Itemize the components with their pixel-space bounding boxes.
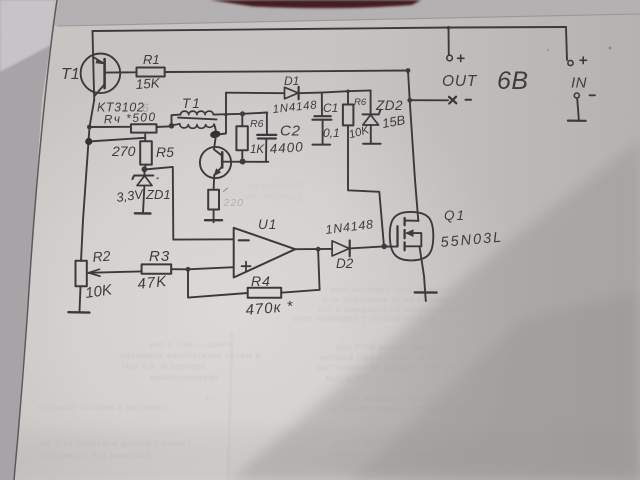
resistor R7 [131,124,157,132]
node feedback junction [186,267,191,272]
node OUT- junction [407,98,412,103]
wire D1 cathode to C1 node [299,92,322,95]
wire feedback right leg [281,249,319,292]
wire OUT- [410,99,448,101]
node R7 junction [87,125,92,130]
transistor T1 [81,54,137,96]
bar IN- end [568,119,586,121]
node gate junction [381,244,387,250]
resistor 220 emitter [208,190,219,210]
terminal OUT- x mark [449,97,456,104]
wire D2 to gate [350,246,398,248]
wire D1 anode horizontal [226,92,285,95]
wire IN+ drop [566,27,567,60]
wire top rail [93,27,567,31]
ground Q1 [415,291,437,294]
ground R2 [68,311,89,314]
wire R7 right lead [157,125,172,128]
wire OUT+ drop [448,28,450,55]
transistor Q2 [200,136,231,178]
wire Q1 source to ground [420,246,426,301]
resistor R4 [248,288,282,298]
node R6 top junction [240,111,245,116]
capacitor C1 [313,93,332,145]
wire feedback left leg [188,269,248,297]
zener ZD2 [363,90,381,143]
label IN minus sign [590,94,596,96]
wire ZD1 node to op-amp minus [144,167,233,240]
resistor R6 1K [236,114,247,162]
label OUT plus sign [458,55,465,62]
terminal OUT+ circle [447,55,453,61]
node ZD1 junction [142,166,148,172]
wire 220 bottom lead [213,210,215,223]
wire D1 anode vertical [218,93,227,135]
wire R7 left lead [89,126,131,128]
node collector blob [209,130,221,139]
diode D2 [332,241,350,257]
wire R3 to op-amp plus [171,267,234,269]
node top-rail to OUT+ junction [447,26,451,30]
wire left rail [81,100,94,261]
node output junction [316,247,321,252]
label IN plus sign [580,57,587,64]
pencil tick near 220 [224,188,228,192]
wire top node C1 to ZD2 [322,90,371,92]
resistor R1 [137,68,165,77]
zener ZD1 [132,169,153,213]
resistor R6 10K near ZD2 [343,91,384,246]
capacitor C2 [257,113,276,162]
node corner blob R1 wire [406,68,411,73]
wire drain vertical [408,71,418,221]
wire IN- stub [577,98,579,119]
node R6 bottom junction [240,159,246,165]
ground ZD1 [135,212,151,215]
resistor R5 [89,135,152,170]
ground emitter resistor [205,219,222,221]
terminal IN+ circle [568,60,573,65]
diode D1 [285,87,299,99]
terminal IN- circle [574,93,579,98]
wire Q2 base [222,161,268,163]
mosfet Q1 [390,212,434,261]
label OUT minus sign [466,99,472,101]
node crossing dot [224,113,227,116]
wire R1 to right corner [165,71,408,73]
pencil fleck [156,177,158,179]
wire Q2 emitter lead [213,175,216,190]
node transformer left blob [169,123,175,129]
wiper wire R2 to R3 [89,269,141,276]
resistor R3 [142,264,172,273]
wire winding to C2 node [214,113,268,115]
node left rail blob [85,138,92,145]
wire left rail top [93,31,95,100]
op-amp U1 [234,228,296,278]
potentiometer R2 [76,261,87,312]
node 10K top junction [346,90,350,94]
wire op-amp output [295,248,332,250]
transformer T1 windings [172,111,217,133]
